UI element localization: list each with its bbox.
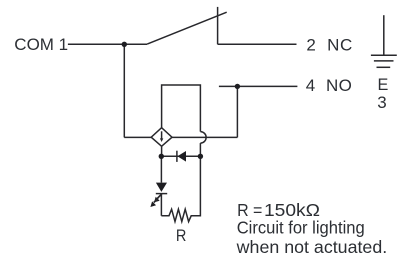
svg-text:COM 1: COM 1 (14, 35, 68, 54)
svg-text:Circuit for lighting: Circuit for lighting (237, 217, 365, 237)
svg-text:3: 3 (377, 93, 386, 112)
svg-text:R: R (176, 226, 187, 245)
svg-text:when not actuated.: when not actuated. (236, 237, 388, 257)
svg-text:4 NO: 4 NO (306, 76, 353, 95)
svg-text:E: E (378, 75, 389, 94)
svg-text:2 NC: 2 NC (306, 35, 352, 54)
